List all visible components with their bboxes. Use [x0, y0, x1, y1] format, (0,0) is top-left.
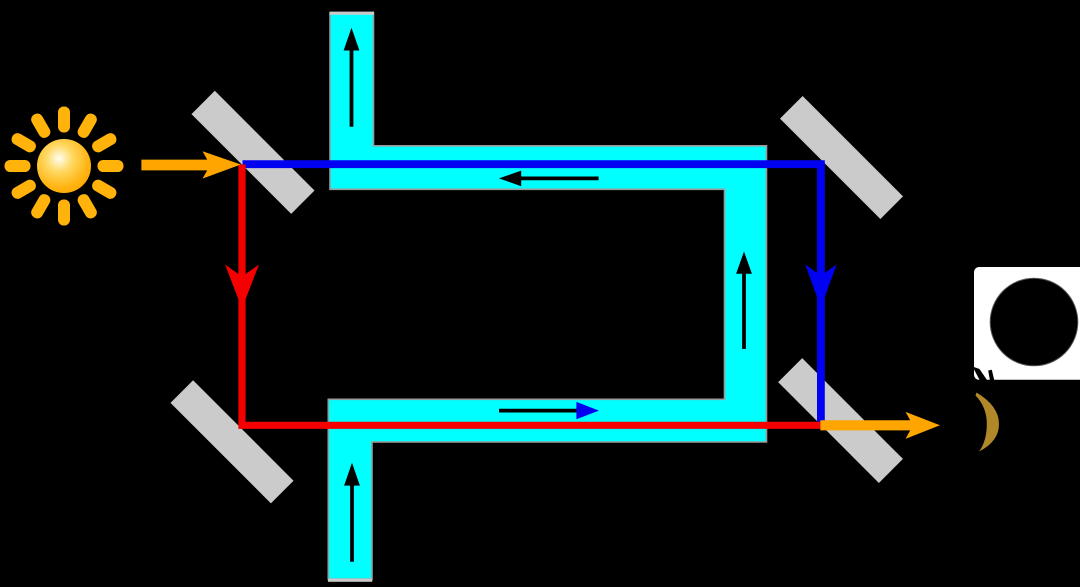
water flow arrow (top arm, left)	[499, 171, 599, 187]
observer eye: pupil	[990, 278, 1078, 366]
orange output ray (splitter to eye)	[820, 412, 940, 439]
observer eye: eyelash 2	[988, 370, 994, 381]
blue light beam path	[243, 164, 821, 425]
tube top end cap	[330, 12, 374, 15]
blue beam arrowhead (down)	[805, 265, 836, 308]
orange input ray (sun to splitter)	[141, 151, 240, 178]
observer eye: iris	[976, 393, 1000, 452]
water flow arrow (bottom arm, right, blue head)	[499, 402, 599, 419]
red beam arrowhead (down)	[225, 265, 259, 309]
mirror/beam-splitter G3 (bottom-right)	[778, 358, 903, 483]
sun	[5, 107, 124, 226]
red light beam path	[242, 165, 821, 426]
water flow arrow (right connector, up)	[736, 252, 752, 349]
mirror M4 (bottom-left)	[170, 380, 293, 503]
mirror M2 (top-right)	[780, 96, 903, 219]
tube bottom end cap	[328, 579, 372, 582]
water flow arrow (bottom stub, up)	[344, 463, 360, 562]
observer eye: eyelash 1	[973, 367, 988, 381]
mirror/beam-splitter G1 (top-left)	[191, 91, 314, 214]
water flow arrow (top stub, up)	[344, 28, 360, 127]
water tube (cyan, C-shape with inlet/outlet stubs)	[328, 13, 766, 579]
observer eye: white panel	[974, 267, 1080, 380]
